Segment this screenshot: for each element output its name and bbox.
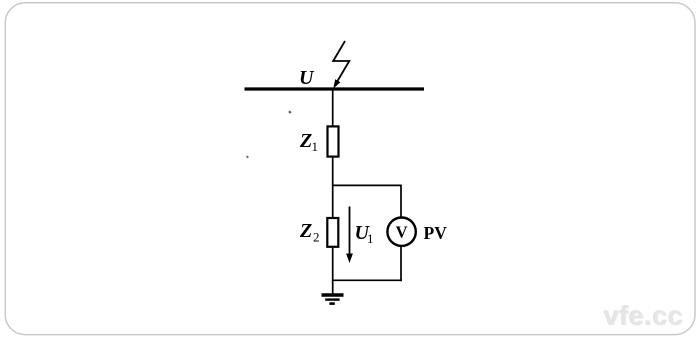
ground [322,295,344,304]
wire: node A down to Z2 [332,185,334,217]
stray scan speck 1 [288,110,291,113]
svg-text:V: V [396,223,408,242]
voltage arrow U1 [346,207,353,264]
node A: top branch wire to voltmeter [332,184,402,186]
svg-text:1: 1 [312,139,319,154]
wire: Z2 to ground [332,248,334,295]
wire: bottom branch [332,279,402,281]
svg-text:Z: Z [299,130,312,152]
wire: Z1 to node A [332,158,334,186]
svg-text:2: 2 [313,230,320,245]
svg-text:Z: Z [299,220,312,242]
resistor Z1 [328,126,339,156]
label U1 [355,222,374,246]
wire: voltmeter to bottom branch [400,246,402,281]
svg-text:PV: PV [424,223,448,243]
label Z2 [299,220,320,245]
label Z1 [299,130,318,154]
lightning surge symbol [333,41,349,89]
resistor Z2 [327,218,338,247]
wire: right branch down to voltmeter [400,185,402,218]
wire: busbar to Z1 [332,89,334,126]
voltmeter PV [387,218,415,246]
svg-text:U: U [299,67,315,89]
watermark vfe.cc [604,301,694,332]
svg-text:1: 1 [367,231,374,246]
stray scan speck 2 [246,155,249,158]
wire: top busbar U [245,87,425,90]
